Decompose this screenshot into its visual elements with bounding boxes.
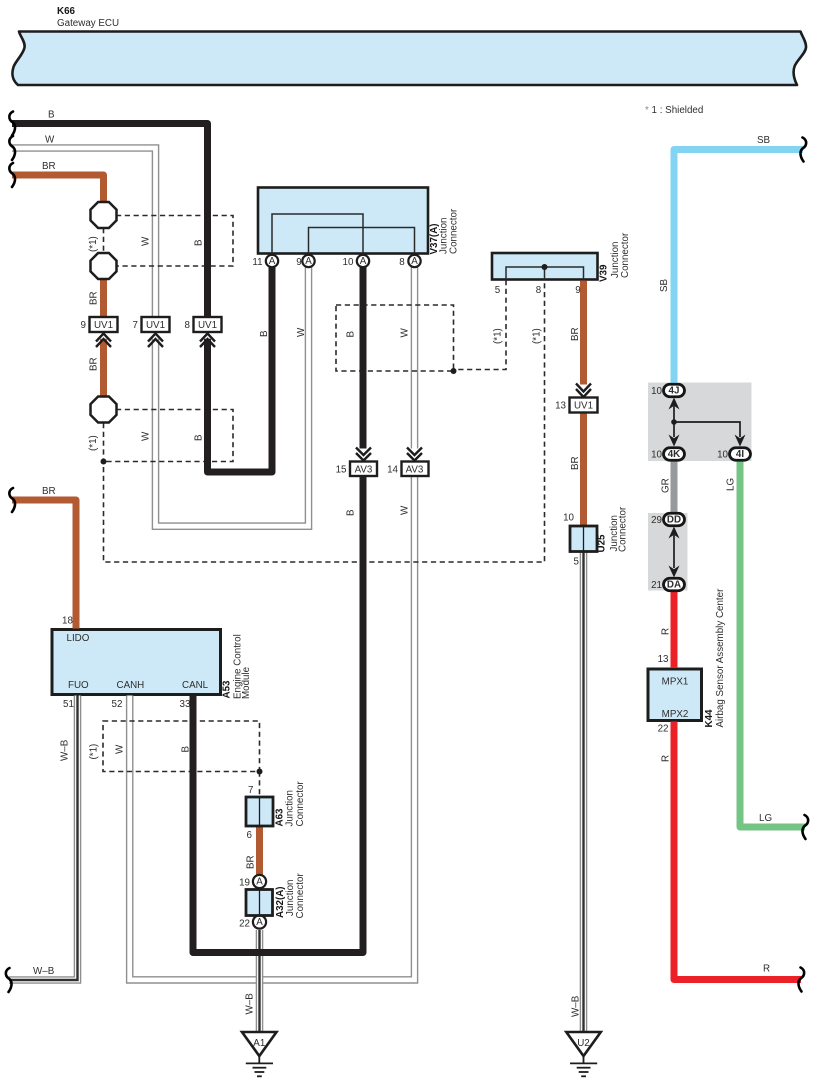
svg-text:13: 13: [658, 654, 669, 665]
svg-text:B: B: [48, 110, 55, 121]
svg-text:18: 18: [62, 616, 73, 627]
svg-text:AV3: AV3: [406, 465, 424, 476]
svg-text:(*1): (*1): [89, 744, 100, 760]
svg-text:8: 8: [399, 257, 405, 268]
svg-text:W–B: W–B: [60, 739, 71, 761]
svg-text:BR: BR: [570, 327, 581, 341]
svg-text:K66: K66: [57, 6, 76, 17]
svg-text:W: W: [400, 505, 411, 515]
svg-text:SB: SB: [659, 278, 670, 292]
svg-text:5: 5: [574, 557, 580, 568]
svg-text:CANH: CANH: [117, 680, 145, 691]
svg-text:9: 9: [575, 285, 580, 296]
svg-text:CANL: CANL: [182, 680, 209, 691]
svg-text:11: 11: [252, 257, 262, 268]
svg-text:9: 9: [81, 320, 86, 331]
svg-text:A1: A1: [253, 1038, 265, 1049]
svg-text:4J: 4J: [669, 386, 680, 397]
svg-text:FUO: FUO: [68, 680, 89, 691]
svg-text:(*1): (*1): [493, 328, 504, 344]
svg-text:UV1: UV1: [146, 320, 165, 331]
svg-text:B: B: [259, 330, 270, 337]
svg-text:Connector: Connector: [617, 506, 628, 552]
svg-text:W–B: W–B: [245, 993, 256, 1015]
svg-text:DA: DA: [667, 580, 681, 591]
svg-text:(*1): (*1): [88, 435, 99, 451]
svg-text:UV1: UV1: [574, 401, 593, 412]
svg-text:22: 22: [658, 724, 669, 735]
svg-text:Connector: Connector: [295, 781, 306, 827]
svg-text:W: W: [45, 135, 55, 146]
svg-text:DD: DD: [667, 515, 681, 526]
svg-text:GR: GR: [661, 478, 672, 493]
svg-text:W: W: [141, 236, 152, 246]
svg-text:8: 8: [536, 285, 542, 296]
svg-text:U2: U2: [577, 1038, 590, 1049]
svg-text:MPX1: MPX1: [662, 677, 689, 688]
svg-text:8: 8: [185, 320, 191, 331]
svg-text:A: A: [256, 917, 263, 928]
svg-text:W–B: W–B: [33, 966, 55, 977]
svg-text:SB: SB: [757, 135, 771, 146]
svg-text:V39: V39: [599, 264, 610, 282]
svg-text:W: W: [141, 431, 152, 441]
svg-text:(*1): (*1): [532, 328, 543, 344]
svg-text:B: B: [346, 509, 357, 516]
svg-text:Connector: Connector: [449, 208, 460, 254]
svg-text:BR: BR: [89, 357, 100, 371]
svg-text:LG: LG: [726, 478, 737, 491]
svg-text:B: B: [346, 331, 357, 338]
svg-text:4I: 4I: [736, 449, 744, 460]
svg-text:R: R: [763, 964, 770, 975]
svg-text:9: 9: [296, 257, 301, 268]
svg-text:Connector: Connector: [295, 873, 306, 919]
svg-text:10: 10: [651, 450, 662, 461]
svg-text:52: 52: [112, 699, 123, 710]
svg-text:LG: LG: [759, 813, 772, 824]
svg-text:* 1 : Shielded: * 1 : Shielded: [645, 105, 703, 116]
svg-text:AV3: AV3: [355, 465, 373, 476]
svg-text:Connector: Connector: [620, 232, 631, 278]
svg-text:4K: 4K: [668, 449, 681, 460]
svg-text:7: 7: [248, 785, 253, 796]
svg-text:A: A: [305, 256, 312, 267]
svg-text:Airbag Sensor Assembly Center: Airbag Sensor Assembly Center: [715, 588, 726, 728]
svg-text:21: 21: [651, 580, 662, 591]
svg-text:14: 14: [387, 465, 398, 476]
svg-text:A: A: [269, 256, 276, 267]
svg-text:22: 22: [239, 919, 250, 930]
svg-text:BR: BR: [570, 456, 581, 470]
svg-text:13: 13: [555, 401, 566, 412]
svg-text:A: A: [411, 256, 418, 267]
svg-text:10: 10: [717, 450, 728, 461]
svg-text:LIDO: LIDO: [67, 633, 90, 644]
svg-text:10: 10: [343, 257, 354, 268]
svg-text:R: R: [661, 755, 672, 762]
svg-text:33: 33: [180, 699, 191, 710]
svg-text:B: B: [181, 746, 192, 753]
svg-text:51: 51: [63, 699, 74, 710]
svg-text:6: 6: [247, 830, 253, 841]
svg-text:BR: BR: [246, 855, 257, 869]
svg-text:10: 10: [563, 513, 574, 524]
svg-text:29: 29: [651, 515, 662, 526]
svg-text:15: 15: [336, 465, 347, 476]
svg-text:W–B: W–B: [571, 995, 582, 1017]
svg-text:A: A: [256, 877, 263, 888]
svg-text:B: B: [194, 239, 205, 246]
svg-text:A: A: [360, 256, 367, 267]
svg-text:7: 7: [133, 320, 138, 331]
svg-text:(*1): (*1): [88, 236, 99, 252]
svg-text:W: W: [400, 328, 411, 338]
svg-text:BR: BR: [42, 486, 56, 497]
svg-text:5: 5: [495, 285, 501, 296]
svg-text:K44: K44: [704, 709, 715, 728]
svg-text:Gateway ECU: Gateway ECU: [57, 18, 119, 29]
svg-text:Module: Module: [241, 666, 252, 699]
svg-text:19: 19: [239, 878, 250, 889]
svg-text:A53: A53: [222, 680, 233, 699]
svg-text:R: R: [661, 628, 672, 635]
svg-text:U25: U25: [597, 534, 608, 553]
svg-text:10: 10: [651, 386, 662, 397]
svg-text:B: B: [194, 434, 205, 441]
svg-text:UV1: UV1: [198, 320, 217, 331]
svg-text:UV1: UV1: [94, 320, 113, 331]
svg-text:W: W: [115, 744, 126, 754]
svg-text:BR: BR: [89, 291, 100, 305]
svg-text:Junction: Junction: [284, 790, 295, 827]
svg-text:BR: BR: [42, 161, 56, 172]
svg-text:MPX2: MPX2: [662, 709, 689, 720]
svg-text:W: W: [296, 327, 307, 337]
